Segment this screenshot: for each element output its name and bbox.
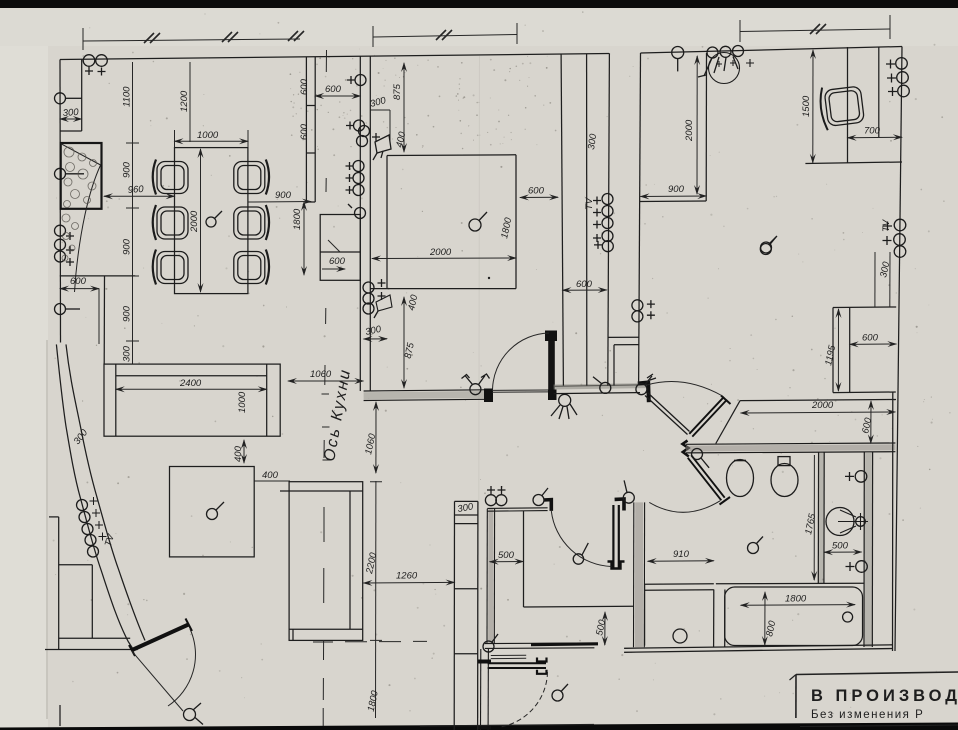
dim 400 horizontal near table xyxy=(254,470,290,481)
dim column left x132 xyxy=(122,62,140,364)
vertical crease xyxy=(479,56,480,718)
kitchen counter block xyxy=(370,155,516,289)
dim 1765 vertical xyxy=(803,455,818,580)
svg-text:1060: 1060 xyxy=(310,369,332,380)
svg-text:600: 600 xyxy=(70,276,87,287)
hinge zigzag xyxy=(683,441,689,457)
outlets on bedroom wall left xyxy=(632,300,655,322)
dim 1000 dining table xyxy=(175,130,249,147)
dim 300 above wardrobe left xyxy=(874,252,876,307)
dim 2000 bedroom niche vertical xyxy=(684,56,697,194)
svg-text:1260: 1260 xyxy=(396,571,418,582)
door leaf: toilet door diagonal up xyxy=(689,397,727,437)
hall lamp mid xyxy=(593,377,611,394)
wall: toilet-bath divider xyxy=(818,453,824,584)
outlets right wall top xyxy=(886,58,909,97)
lamp coffee table xyxy=(207,502,225,520)
lamp bedroom xyxy=(761,236,778,253)
dim 910 xyxy=(648,549,714,561)
dim 1500 bedroom vertical xyxy=(801,50,813,163)
door bottom-left arc xyxy=(168,629,195,706)
svg-text:700: 700 xyxy=(864,126,881,137)
bedroom2 walls xyxy=(487,508,548,644)
svg-text:2000: 2000 xyxy=(429,247,452,258)
door bottom-left axis line xyxy=(132,651,183,711)
svg-text:900: 900 xyxy=(122,161,133,178)
sink bathroom xyxy=(826,508,868,536)
dim 1800 bathtub xyxy=(741,594,855,606)
wall: hall bottom thick wall xyxy=(554,385,646,394)
svg-text:1000: 1000 xyxy=(237,391,248,413)
dim 2000 dining table vertical xyxy=(189,149,201,292)
dim 600 wardrobe xyxy=(850,333,897,345)
svg-text:1200: 1200 xyxy=(179,90,190,112)
living room curved wall outer xyxy=(56,344,133,649)
paper fold edge xyxy=(46,340,48,719)
lamp bottom room left xyxy=(483,634,498,652)
dim 875 kitchen lower xyxy=(403,297,417,388)
chairs right column xyxy=(234,160,269,285)
door arc: kitchen door xyxy=(493,333,550,390)
svg-text:600: 600 xyxy=(299,123,310,140)
dim 500 under sink xyxy=(824,541,861,553)
dim 300 right wall xyxy=(878,252,892,307)
bottom thin wall line xyxy=(420,725,594,727)
axis line kitchen dash-dot xyxy=(323,50,326,726)
door leaf: kitchen door vertical xyxy=(545,331,557,401)
svg-text:400: 400 xyxy=(233,445,244,462)
dim 600 top kitchen strip xyxy=(315,84,360,96)
dim 600 kitchen right xyxy=(520,186,558,198)
svg-text:300: 300 xyxy=(586,132,599,150)
wall: bedroom niche vertical xyxy=(705,53,707,201)
outlet corridor top xyxy=(594,241,613,252)
wall: kitchen bottom thick wall left part xyxy=(364,389,493,403)
svg-text:900: 900 xyxy=(275,190,292,201)
living room curved wall inner xyxy=(66,344,145,640)
outlets top wall pair xyxy=(83,55,107,76)
dim 1260 xyxy=(364,571,455,584)
wall: dining-kitchen double wall xyxy=(306,57,315,202)
svg-text:900: 900 xyxy=(122,238,133,255)
coffee table square xyxy=(170,467,255,557)
outlets left wall xyxy=(55,93,85,315)
dim 1060 vertical right of sofa xyxy=(363,402,378,473)
sofa vertical along kitchen axis xyxy=(280,482,363,641)
svg-text:TV: TV xyxy=(881,218,892,232)
kitchen wall outlets top xyxy=(346,75,381,219)
dim 1195 wardrobe xyxy=(823,309,838,391)
hall sprinkler symbol xyxy=(551,394,577,419)
lamp toilet room xyxy=(748,537,764,554)
armchair bedroom xyxy=(818,83,864,131)
svg-text:1000: 1000 xyxy=(197,130,219,141)
lamp bedroom2 door top xyxy=(533,488,548,506)
door arc: toilet door xyxy=(647,382,723,396)
svg-text:875: 875 xyxy=(392,83,403,100)
wall: bath bottom xyxy=(624,583,893,652)
wall: bathroom inner right wall xyxy=(864,392,893,651)
svg-text:1800: 1800 xyxy=(292,208,303,230)
svg-text:600: 600 xyxy=(329,256,346,267)
svg-text:2000: 2000 xyxy=(811,400,834,411)
door jamb: hall corner bracket xyxy=(638,383,649,403)
door arc: corridor lower xyxy=(649,501,720,513)
outlet bath top xyxy=(845,471,867,483)
axis wall kitchen (double with crosses) xyxy=(454,501,478,730)
title block xyxy=(790,672,958,727)
wall: right exterior xyxy=(895,47,902,652)
axis tick dashes xyxy=(322,394,331,460)
kitchenette cabinet xyxy=(320,215,360,281)
dim 500 bedroom2 right vertical xyxy=(594,612,608,645)
lamp bottom room xyxy=(552,684,568,701)
axis dim line top-middle xyxy=(373,23,517,47)
wall: left exterior xyxy=(59,60,62,343)
wall tick bottom left xyxy=(59,705,61,726)
wall: top exterior left segment xyxy=(60,54,609,60)
washing machine wall xyxy=(714,590,725,648)
wall: niche line top-left 300 xyxy=(81,60,83,132)
wall: kitchen door threshold thin lines xyxy=(492,390,548,392)
svg-text:1500: 1500 xyxy=(801,95,812,117)
dim 800 bathtub vertical xyxy=(764,592,778,645)
axis dim line top-left xyxy=(83,28,304,50)
bidet xyxy=(771,457,798,497)
svg-text:300: 300 xyxy=(62,107,79,119)
dashed axis bottom x426 xyxy=(313,640,427,643)
dim 300 kitchen lower xyxy=(364,324,387,339)
dim 400 below sofa xyxy=(233,440,244,463)
curve outlets TV xyxy=(77,497,107,557)
wall: hall-bath thick wall xyxy=(686,443,895,453)
outlets TV right wall xyxy=(883,219,906,257)
dim 2000 kitchen counter xyxy=(372,247,516,279)
wall: closet diagonal left edge xyxy=(716,401,740,444)
dim 1060 horizontal xyxy=(288,369,363,381)
corridor ceiling lamp plain xyxy=(760,237,776,255)
dim 2200 vertical xyxy=(364,481,382,718)
dim 2000 closet hall xyxy=(741,400,896,413)
dim 1200 vertical xyxy=(179,62,190,142)
dim 2400 sofa xyxy=(116,378,267,389)
bedroom2 bottom wall xyxy=(485,643,598,648)
svg-text:2000: 2000 xyxy=(189,210,200,233)
top wall lamp with stem xyxy=(672,47,684,72)
axis dashes through sofa xyxy=(323,507,325,603)
toilet bowl 1 xyxy=(727,460,754,497)
bedroom2 door leaf xyxy=(608,505,625,569)
wall: top exterior right segment xyxy=(641,47,903,54)
bedroom2 door arc xyxy=(551,511,611,567)
kitchen lower outlets xyxy=(363,279,392,318)
dim 700 bedroom xyxy=(848,126,903,138)
svg-text:600: 600 xyxy=(325,84,342,95)
dim 600 corridor xyxy=(563,279,607,290)
dim 1800 vertical right xyxy=(292,202,304,275)
bedroom2 door jambs xyxy=(544,500,552,511)
svg-text:910: 910 xyxy=(673,549,690,560)
svg-text:960: 960 xyxy=(127,184,144,196)
lamp entry xyxy=(184,703,204,725)
lamp toilet door xyxy=(623,480,634,503)
chairs left column xyxy=(153,160,188,285)
wall: hall diagonal thick xyxy=(645,393,690,435)
dim 400 kitchen xyxy=(394,130,408,148)
svg-text:400: 400 xyxy=(262,470,279,481)
hall lamp at X door xyxy=(692,449,710,468)
sofa 2400 xyxy=(104,364,280,436)
svg-text:600: 600 xyxy=(299,78,310,95)
svg-text:1100: 1100 xyxy=(122,86,133,107)
svg-text:500: 500 xyxy=(498,550,515,561)
bottom room door leaf horizontal xyxy=(488,658,547,674)
fireplace hatched box xyxy=(60,143,101,292)
bottom room door arc xyxy=(500,672,548,727)
svg-text:1800: 1800 xyxy=(785,594,807,605)
sprinkler top bedroom entry xyxy=(698,46,754,84)
svg-text:500: 500 xyxy=(832,541,849,552)
lamp dining xyxy=(206,211,222,227)
dim 600 kitchenette xyxy=(322,256,346,269)
outlets bedroom2 top wall xyxy=(485,486,506,506)
door leaf: bath corridor door diagonal down xyxy=(688,455,725,500)
svg-text:Без изменения Р: Без изменения Р xyxy=(811,709,924,721)
svg-text:600: 600 xyxy=(576,279,593,290)
wall: bedroom furniture lines xyxy=(805,47,902,164)
bathtub xyxy=(725,587,863,646)
dining table xyxy=(175,148,248,294)
svg-text:TV: TV xyxy=(584,196,595,210)
bottom black band xyxy=(0,723,958,730)
wall: bedroom left vertical xyxy=(639,53,641,386)
dim 300 top-left xyxy=(60,107,82,119)
bottom room left wall vertical xyxy=(478,649,527,730)
svg-text:2000: 2000 xyxy=(684,119,695,142)
hall lamp right with prongs xyxy=(636,374,656,395)
dim 300 kitchen top small xyxy=(369,95,390,143)
svg-text:600: 600 xyxy=(862,333,879,344)
bedroom2 closet lines xyxy=(524,511,634,607)
svg-text:300: 300 xyxy=(122,345,133,362)
wall: closet top edge xyxy=(740,400,896,401)
stove symbol kitchen top xyxy=(373,135,391,160)
wall: toilet room left thick hatched xyxy=(634,502,645,647)
dim 960 xyxy=(104,184,175,196)
TV outlet column corridor xyxy=(593,194,613,243)
svg-text:2400: 2400 xyxy=(179,378,202,389)
dim 900 bedroom niche xyxy=(641,184,707,197)
dim 875 kitchen top xyxy=(392,63,404,152)
wall: kitchen left double wall xyxy=(360,57,370,392)
wardrobe bedroom xyxy=(833,307,896,393)
svg-text:900: 900 xyxy=(668,184,685,195)
left lower wall steps xyxy=(45,517,138,650)
hall lamp left xyxy=(462,374,490,395)
dining zone boundary L xyxy=(60,276,135,364)
wall: bedroom niche bottom xyxy=(640,200,706,203)
dim 500 bedroom2 xyxy=(490,550,524,562)
door bottom-left leaf xyxy=(129,619,192,657)
top black band xyxy=(0,0,958,8)
washing machine xyxy=(645,584,714,646)
axis dim line top-right xyxy=(740,15,890,42)
corridor verticals xyxy=(561,53,609,385)
svg-text:В ПРОИЗВОДСТ: В ПРОИЗВОДСТ xyxy=(811,687,958,705)
dim 600 closet vertical xyxy=(860,401,874,443)
svg-text:900: 900 xyxy=(122,305,133,322)
dim 900 right of table xyxy=(248,190,311,202)
closet shelf lines top-right of hall xyxy=(608,337,639,385)
lamp kitchen + 1800 xyxy=(469,212,487,231)
outlet below sink xyxy=(846,561,868,573)
dim 600 bottom of left wall xyxy=(60,276,99,344)
lamp bedroom2 xyxy=(573,543,588,564)
svg-text:600: 600 xyxy=(528,186,545,197)
